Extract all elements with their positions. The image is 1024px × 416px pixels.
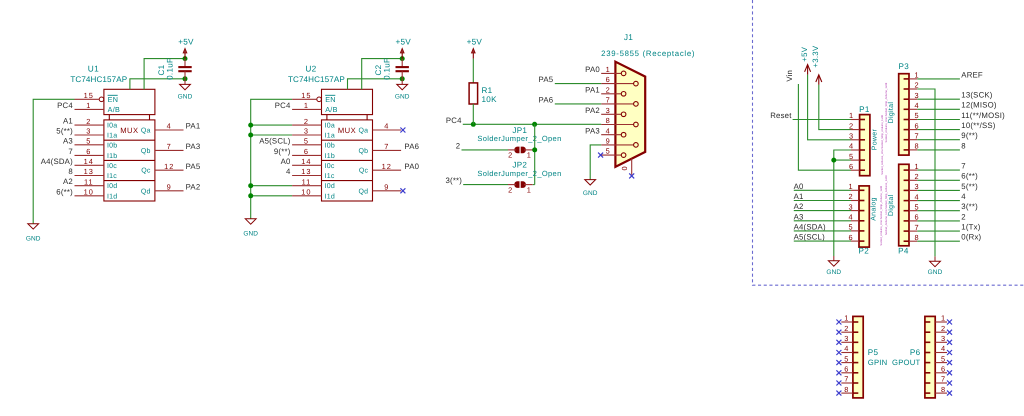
svg-text:4: 4 (914, 101, 919, 110)
svg-text:1: 1 (844, 314, 849, 323)
P2 pin 5 stub (859, 230, 864, 232)
svg-text:4: 4 (961, 192, 966, 201)
U2 pin 9 (373, 190, 402, 192)
JP2 pin 2 (508, 184, 516, 186)
svg-text:Vin: Vin (785, 70, 794, 82)
svg-text:9: 9 (606, 137, 611, 146)
ground symbol C1 (178, 84, 193, 100)
U2 pin 4 (373, 129, 402, 131)
svg-text:1: 1 (849, 182, 854, 191)
svg-text:6: 6 (849, 162, 854, 171)
svg-text:0(Rx): 0(Rx) (961, 233, 981, 242)
svg-text:1: 1 (914, 162, 919, 171)
svg-text:3: 3 (914, 182, 919, 191)
wire A2 to P2 (794, 210, 851, 212)
svg-text:1: 1 (527, 185, 532, 194)
P3 pin 2 stub (904, 88, 909, 90)
svg-text:A0: A0 (794, 182, 804, 191)
svg-text:11: 11 (84, 177, 94, 186)
node 11(**/MOSI) label at P3 (909, 119, 917, 121)
wire bus left of U1 (33, 99, 74, 223)
ground J1 pin 9 (583, 180, 598, 197)
svg-text:+5V: +5V (395, 37, 411, 46)
svg-text:PA5: PA5 (186, 162, 201, 171)
no-connect P5 pin 3 (836, 340, 841, 345)
svg-text:GPIN: GPIN (868, 358, 888, 367)
wire U2 GND pin to capacitor (348, 79, 403, 90)
svg-text:4: 4 (167, 122, 172, 131)
P1 pin lead (851, 159, 860, 161)
svg-text:6: 6 (941, 365, 946, 374)
svg-text:GND: GND (243, 231, 258, 238)
P2 pin 1 stub (859, 189, 864, 191)
P1 pin 2 stub (860, 129, 865, 131)
no-connect P5 pin 7 (836, 381, 841, 386)
connector J1 D-sub body (615, 62, 645, 167)
svg-text:EN: EN (325, 95, 336, 104)
no-connect P6 pin 8 (947, 391, 952, 396)
junction P1 pin5 gnd (831, 158, 836, 163)
P6 pin 3 stub (925, 341, 930, 343)
svg-text:5: 5 (844, 354, 849, 363)
svg-text:5(**): 5(**) (961, 182, 978, 191)
P6 pin 6 lead (935, 372, 947, 374)
solder jumper JP1 (514, 147, 526, 154)
svg-text:7: 7 (68, 147, 73, 156)
svg-text:9(**): 9(**) (274, 147, 291, 156)
U1 pin 2 (75, 124, 104, 126)
wire net 2 to JP1 (462, 149, 509, 151)
svg-text:Socket_Arduino_Uno:Socket_Stri: Socket_Arduino_Uno:Socket_Strip_Arduino_… (880, 186, 883, 246)
U1 pin 1 (75, 108, 104, 110)
P6 pin 7 stub (925, 382, 930, 384)
junction bus U2 (248, 133, 253, 138)
junction R1/PC4 (471, 122, 476, 127)
svg-text:U1: U1 (88, 64, 99, 74)
wire bus to U2 pin (251, 195, 292, 197)
capacitor C1 plates (178, 67, 191, 71)
svg-text:8: 8 (941, 385, 946, 394)
svg-text:5(**): 5(**) (56, 127, 73, 136)
junction GND node U1 (183, 76, 188, 81)
P6 pin 2 lead (935, 331, 947, 333)
svg-text:Qb: Qb (358, 147, 368, 155)
P5 pin 4 stub (853, 352, 858, 354)
P4 pin 3 stub (904, 189, 909, 191)
svg-text:7: 7 (914, 131, 919, 140)
svg-text:1: 1 (941, 314, 946, 323)
P1 pin lead (851, 129, 860, 131)
wire +5V to R1 (472, 59, 474, 83)
svg-text:PA2: PA2 (585, 106, 600, 115)
U1 pin 6 (75, 154, 104, 156)
svg-text:Qa: Qa (141, 128, 151, 135)
svg-text:7: 7 (914, 223, 919, 232)
J1 pin 4 (601, 134, 621, 136)
svg-text:GND: GND (583, 190, 598, 197)
svg-text:PA5: PA5 (539, 75, 554, 84)
svg-text:I1c: I1c (325, 173, 335, 180)
svg-text:I1b: I1b (107, 152, 117, 160)
svg-text:10: 10 (84, 188, 94, 197)
P6 pin 8 lead (935, 392, 947, 394)
svg-text:6: 6 (86, 147, 91, 156)
P5 pin 4 lead (841, 352, 853, 354)
svg-text:2: 2 (606, 85, 611, 94)
junction +5V node U1 (183, 56, 188, 61)
svg-text:P3: P3 (899, 62, 910, 71)
svg-text:1: 1 (914, 71, 919, 80)
no-connect P6 pin 4 (947, 350, 952, 355)
P2 pin 4 stub (859, 220, 864, 222)
svg-text:Qc: Qc (141, 168, 151, 175)
svg-text:P1: P1 (859, 105, 870, 114)
ground below capacitor C1 (184, 79, 186, 85)
svg-text:Analog: Analog (870, 197, 878, 221)
svg-text:+5V: +5V (178, 37, 194, 46)
J1 pin 8 (601, 124, 634, 126)
no-connect U2 pin 4 (400, 128, 405, 133)
svg-text:1(Tx): 1(Tx) (961, 223, 980, 232)
svg-text:6: 6 (914, 213, 919, 222)
svg-text:PA0: PA0 (585, 65, 600, 74)
svg-text:7: 7 (167, 142, 172, 151)
ground symbol P3/P4 (928, 261, 943, 276)
svg-text:3: 3 (849, 202, 854, 211)
svg-text:11(**/MOSI): 11(**/MOSI) (961, 111, 1005, 120)
svg-text:A1: A1 (794, 192, 804, 201)
svg-text:U2: U2 (305, 64, 316, 74)
P3 pin 5 stub (904, 119, 909, 121)
P5 pin 6 lead (841, 372, 853, 374)
J1 pin 2 (601, 93, 621, 95)
svg-text:3: 3 (844, 334, 849, 343)
U1 pin 11 (75, 185, 104, 187)
wire net 3(**) to JP2 (463, 184, 508, 186)
P6 pin 4 lead (935, 352, 947, 354)
svg-text:13: 13 (301, 167, 311, 176)
power +5V at C1 (178, 37, 194, 58)
no-connect J1 shield (629, 173, 634, 178)
svg-text:2: 2 (961, 212, 966, 221)
svg-text:5: 5 (849, 223, 854, 232)
wire +5V to P1 pin 3 (808, 75, 851, 140)
wire A1 to P2 (794, 200, 851, 202)
svg-text:10: 10 (301, 188, 311, 197)
svg-text:7: 7 (941, 375, 946, 384)
svg-text:R1: R1 (482, 86, 493, 95)
wire P3 pin 2 to ground (909, 88, 917, 90)
svg-text:2: 2 (304, 117, 309, 126)
svg-text:SolderJumper_2_Open: SolderJumper_2_Open (477, 169, 561, 178)
wire JP2 pin1 up (533, 184, 535, 186)
svg-text:TC74HC157AP: TC74HC157AP (70, 75, 127, 84)
wire U2 VCC pin to +5V (362, 59, 403, 90)
U1 pin 14 (75, 164, 104, 166)
P6 pin 3 lead (935, 341, 947, 343)
svg-text:PA3: PA3 (585, 126, 600, 135)
svg-text:4: 4 (384, 122, 389, 131)
svg-text:6(**): 6(**) (961, 172, 978, 181)
ground symbol P1/P2 (826, 261, 841, 276)
P5 pin 7 lead (841, 382, 853, 384)
svg-text:I0c: I0c (107, 163, 117, 170)
U2 pin 10 (292, 195, 321, 197)
P4 pin 2 stub (904, 179, 909, 181)
node 3(**) label at P4 (909, 210, 917, 212)
svg-text:SolderJumper_2_Open: SolderJumper_2_Open (477, 134, 561, 143)
J1 pin 7 (601, 103, 634, 105)
P6 pin 1 lead (935, 321, 947, 323)
no-connect P5 pin 1 (836, 320, 841, 325)
node 7 label at P4 (909, 169, 917, 171)
J1 pin 3 (601, 113, 621, 115)
wire J1 pin 9 to ground (590, 145, 601, 180)
node 8 label at P3 (909, 149, 917, 151)
no-connect P5 pin 8 (836, 391, 841, 396)
svg-text:PC4: PC4 (57, 101, 73, 110)
J1 pin 1 (601, 72, 621, 74)
U2 pin 14 (292, 164, 321, 166)
svg-text:6: 6 (844, 365, 849, 374)
P1 pin 4 stub (860, 149, 865, 151)
P1 pin lead (851, 169, 860, 171)
svg-text:I0d: I0d (107, 182, 117, 190)
svg-text:GND: GND (826, 269, 841, 276)
svg-text:11: 11 (302, 177, 312, 186)
svg-text:2: 2 (849, 192, 854, 201)
svg-text:Power: Power (872, 129, 879, 151)
U2 pin 1 (292, 108, 321, 110)
P5 pin 5 lead (841, 362, 853, 364)
svg-text:3: 3 (86, 127, 91, 136)
P1 pin 3 stub (860, 139, 865, 141)
svg-text:1: 1 (606, 65, 611, 74)
svg-text:A4(SDA): A4(SDA) (41, 157, 73, 166)
svg-text:MUX: MUX (338, 126, 356, 135)
svg-text:7: 7 (961, 162, 966, 171)
U2 pin 12 (373, 169, 402, 171)
U1 pin 4 (155, 129, 184, 131)
no-connect P5 pin 6 (836, 370, 841, 375)
svg-text:8: 8 (606, 116, 611, 125)
svg-text:9(**): 9(**) (961, 131, 978, 140)
P1 pin 1 stub (860, 119, 865, 121)
svg-text:J1: J1 (624, 32, 633, 42)
P3 pin 6 stub (904, 129, 909, 131)
wire PC4 to J1 pin 8 (463, 123, 601, 125)
svg-text:12(MISO): 12(MISO) (961, 101, 997, 110)
svg-text:8: 8 (914, 142, 919, 151)
U2 pin 13 (292, 175, 321, 177)
svg-text:8: 8 (844, 385, 849, 394)
connector P1 body (860, 115, 870, 176)
U1 pin 15 (75, 98, 100, 100)
wire Reset to P1 pin 1 (793, 119, 851, 121)
P5 pin 1 stub (853, 321, 858, 323)
P1 pin 5 stub (860, 159, 865, 161)
svg-text:P2: P2 (859, 247, 870, 256)
svg-text:2: 2 (849, 121, 854, 130)
node 9(**) label at P3 (909, 139, 917, 141)
no-connect P6 pin 2 (947, 330, 952, 335)
svg-text:6: 6 (304, 147, 309, 156)
svg-text:A5(SCL): A5(SCL) (794, 233, 826, 242)
power +5V at C2 (395, 37, 411, 58)
svg-text:A2: A2 (63, 177, 73, 186)
P4 pin 1 stub (904, 169, 909, 171)
svg-text:5: 5 (914, 111, 919, 120)
P1 pin lead (851, 119, 860, 121)
svg-text:PA0: PA0 (404, 162, 419, 171)
P6 pin 5 lead (935, 362, 947, 364)
P3 pin 4 stub (904, 108, 909, 110)
P4 pin 8 stub (904, 240, 909, 242)
svg-text:5: 5 (849, 152, 854, 161)
svg-text:5: 5 (304, 137, 309, 146)
wire R1 to PC4 net (472, 104, 474, 124)
svg-text:13: 13 (84, 167, 94, 176)
svg-text:12: 12 (382, 162, 392, 171)
wire PA6 to J1 (555, 103, 601, 105)
svg-text:0.1uF: 0.1uF (383, 58, 392, 80)
capacitor C2 plates (396, 67, 409, 71)
svg-text:I1b: I1b (325, 152, 335, 160)
P4 pin 7 stub (904, 230, 909, 232)
P6 pin 4 stub (925, 352, 930, 354)
svg-text:0.1uF: 0.1uF (165, 58, 174, 80)
P4 pin 6 stub (904, 220, 909, 222)
U2 pin 2 (292, 124, 321, 126)
svg-text:A5(SCL): A5(SCL) (259, 136, 291, 145)
junction GND node U2 (400, 76, 405, 81)
svg-text:7: 7 (606, 96, 611, 105)
U2 pin 6 (292, 154, 321, 156)
solder jumper JP2 (514, 181, 526, 188)
svg-text:GND: GND (26, 236, 41, 243)
U2 pin 7 (373, 149, 402, 151)
svg-text:13(SCK): 13(SCK) (961, 91, 993, 100)
svg-text:I1a: I1a (107, 133, 117, 140)
svg-text:7: 7 (384, 142, 389, 151)
node 12(MISO) label at P3 (909, 108, 917, 110)
ground below P1/P2 (833, 256, 835, 261)
svg-text:AREF: AREF (961, 70, 983, 79)
svg-text:9: 9 (167, 183, 172, 192)
U2 inversion bubble pin 15 (317, 97, 322, 102)
svg-text:3(**): 3(**) (445, 176, 462, 185)
wire JP1 to PC4 net vertical (533, 149, 535, 151)
svg-text:+5V: +5V (800, 46, 809, 61)
svg-text:1: 1 (849, 111, 854, 120)
node 0(Rx) label at P4 (909, 240, 917, 242)
J1 pin 6 (601, 83, 634, 85)
wire U1 GND pin to capacitor (130, 79, 185, 90)
node 1(Tx) label at P4 (909, 230, 917, 232)
no-connect P6 pin 3 (947, 340, 952, 345)
svg-text:5: 5 (914, 202, 919, 211)
svg-text:A3: A3 (63, 136, 73, 145)
U1 pin 3 (75, 134, 104, 136)
svg-text:3(**): 3(**) (961, 202, 978, 211)
svg-text:Reset: Reset (770, 111, 792, 120)
J1 shield pin 0 (631, 159, 633, 175)
svg-text:2: 2 (844, 324, 849, 333)
junction bus U2 (248, 123, 253, 128)
svg-text:239-5855 (Receptacle): 239-5855 (Receptacle) (601, 49, 695, 58)
svg-text:2: 2 (86, 117, 91, 126)
ground below P4 (934, 256, 936, 261)
no-connect P6 pin 7 (947, 381, 952, 386)
svg-text:3: 3 (941, 334, 946, 343)
JP1 pin 2 (508, 149, 516, 151)
resistor R1 10K (469, 83, 478, 104)
svg-text:4: 4 (941, 344, 946, 353)
svg-text:15: 15 (301, 91, 311, 100)
svg-text:5: 5 (86, 137, 91, 146)
node 10(**/SS) label at P3 (909, 129, 917, 131)
svg-text:PA2: PA2 (186, 182, 201, 191)
P2 pin 2 stub (859, 200, 864, 202)
U1 pin 5 (75, 144, 104, 146)
P3 pin 1 stub (904, 78, 909, 80)
P6 pin 1 stub (925, 321, 930, 323)
svg-text:I1d: I1d (325, 192, 335, 200)
svg-text:A/B: A/B (108, 105, 121, 114)
P5 pin 2 lead (841, 331, 853, 333)
svg-text:I0b: I0b (325, 141, 335, 149)
svg-text:8: 8 (68, 167, 73, 176)
svg-text:GND: GND (395, 93, 410, 100)
no-connect P6 pin 6 (947, 370, 952, 375)
J1 pin 5 (601, 154, 621, 156)
svg-text:PC4: PC4 (446, 116, 462, 125)
dashed boundary box (753, 0, 1024, 285)
svg-text:+5V: +5V (467, 37, 483, 46)
svg-text:A4(SDA): A4(SDA) (794, 222, 826, 231)
svg-text:14: 14 (84, 157, 94, 166)
junction JP1 pin1 (532, 147, 537, 152)
node AREF label at P3 (909, 78, 917, 80)
svg-text:Qb: Qb (141, 147, 151, 155)
svg-text:I0a: I0a (325, 123, 335, 130)
svg-text:3: 3 (304, 127, 309, 136)
U1 pin 7 (155, 149, 184, 151)
wire A3 to P2 (794, 220, 851, 222)
P5 pin 8 stub (853, 392, 858, 394)
ground below capacitor C2 (401, 79, 403, 85)
svg-text:2: 2 (914, 81, 919, 90)
wire A5(SCL) to P2 (794, 240, 851, 242)
wire bus left of U2 (251, 99, 292, 219)
wire A0 to P2 (794, 189, 851, 191)
U2 pin 11 (292, 185, 321, 187)
svg-text:1: 1 (304, 101, 309, 110)
J1 pin 9 (601, 144, 634, 146)
svg-text:6(**): 6(**) (56, 187, 73, 196)
P1 pin lead (851, 149, 860, 151)
svg-text:EN: EN (108, 95, 119, 104)
svg-text:Socket_Arduino_Uno:Socket_Stri: Socket_Arduino_Uno:Socket_Strip_Arduino_… (881, 115, 884, 175)
svg-text:I0d: I0d (325, 182, 335, 190)
svg-text:1: 1 (527, 151, 532, 160)
svg-text:A2: A2 (794, 202, 804, 211)
svg-text:6: 6 (606, 75, 611, 84)
P4 pin 4 stub (904, 200, 909, 202)
svg-text:GND: GND (178, 93, 193, 100)
connector P2 body (859, 186, 869, 247)
svg-text:3: 3 (849, 132, 854, 141)
